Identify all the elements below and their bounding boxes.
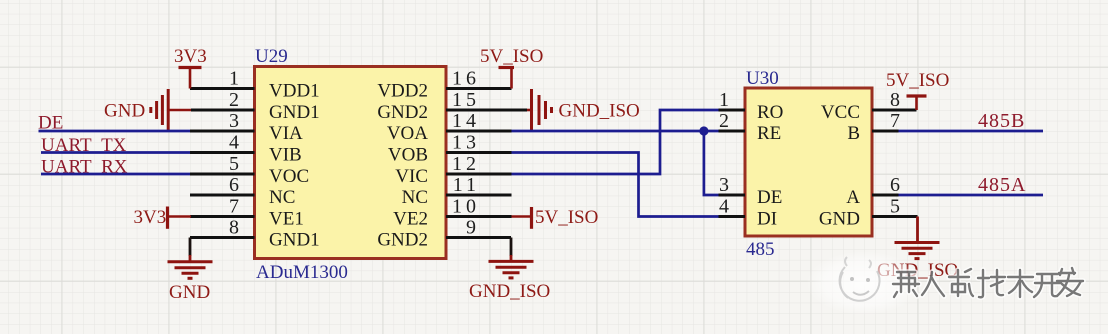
pin 5 (VOC) of U29 <box>190 153 309 187</box>
svg-text:11: 11 <box>453 174 480 196</box>
svg-text:GND_ISO: GND_ISO <box>469 281 550 302</box>
transistor U30 body (485 transceiver IC) <box>745 88 872 236</box>
svg-text:4: 4 <box>719 196 733 218</box>
svg-text:GND2: GND2 <box>377 230 428 251</box>
pin 10 (VE2) of U29 <box>393 196 511 230</box>
net label 485B <box>978 110 1025 132</box>
pin 1 (VDD1) of U29 <box>190 68 320 102</box>
svg-text:VIB: VIB <box>269 145 302 166</box>
svg-text:3: 3 <box>719 174 733 196</box>
svg-text:15: 15 <box>452 89 480 111</box>
power ground GND_ISO (bar style, at U29 pin 15) <box>527 89 640 131</box>
pin 4 (VIB) of U29 <box>190 132 302 166</box>
wire VIC (U29 pin12) to U30 pin1 RO <box>512 110 719 174</box>
power ground GND (bar style, at U29 pin 2) <box>104 89 191 131</box>
wire DE to U29 pin 3 <box>39 130 191 133</box>
pin 2 (GND1) of U29 <box>191 89 320 123</box>
pin 7 (VE1) of U29 <box>190 196 304 230</box>
watermark text 嵌入式技术开发 <box>893 268 1083 297</box>
svg-text:A: A <box>846 187 860 208</box>
svg-text:VDD1: VDD1 <box>269 81 320 102</box>
pin 7 (B) of U30 <box>847 110 904 144</box>
power port 5V_ISO (at U30 pin 8) <box>886 70 949 110</box>
pin 8 (VCC) of U30 <box>821 89 917 123</box>
svg-text:B: B <box>847 123 860 144</box>
svg-text:GND1: GND1 <box>269 102 320 123</box>
net label UART_TX <box>41 135 127 156</box>
pin 5 (GND) of U30 <box>819 196 918 230</box>
svg-text:GND_ISO: GND_ISO <box>559 101 640 122</box>
net label DE <box>38 113 63 134</box>
svg-text:VOA: VOA <box>387 123 428 144</box>
svg-text:7: 7 <box>229 196 243 218</box>
svg-text:3V3: 3V3 <box>134 207 167 228</box>
svg-text:1: 1 <box>229 68 243 90</box>
svg-text:RE: RE <box>757 123 781 144</box>
svg-text:9: 9 <box>466 217 480 239</box>
svg-text:16: 16 <box>452 68 480 90</box>
svg-text:DI: DI <box>757 209 777 230</box>
svg-text:DE: DE <box>757 187 782 208</box>
pin 11 (NC) of U29 <box>402 174 512 208</box>
svg-text:NC: NC <box>402 187 428 208</box>
svg-text:ADuM1300: ADuM1300 <box>256 262 348 283</box>
svg-text:7: 7 <box>890 110 904 132</box>
svg-text:NC: NC <box>269 187 295 208</box>
power ground GND_ISO (earth style, below U29 pin 9) <box>469 238 550 303</box>
pin 15 (GND2) of U29 <box>377 89 527 123</box>
svg-text:3V3: 3V3 <box>174 46 207 67</box>
watermark halo <box>806 251 922 315</box>
svg-text:1: 1 <box>719 89 733 111</box>
svg-text:485A: 485A <box>978 174 1026 196</box>
svg-text:6: 6 <box>229 174 243 196</box>
pin 8 (GND1) of U29 <box>190 217 320 251</box>
pin 1 (RO) of U30 <box>719 89 784 123</box>
svg-text:6: 6 <box>890 174 904 196</box>
svg-text:VE2: VE2 <box>393 209 428 230</box>
svg-text:4: 4 <box>229 132 243 154</box>
wire A (U30 pin6) to 485A <box>899 194 1044 197</box>
power ground GND_ISO (earth style, below U30 pin 5) <box>877 217 958 282</box>
svg-text:VIC: VIC <box>395 166 428 187</box>
svg-text:GND: GND <box>819 209 860 230</box>
svg-text:GND: GND <box>169 282 210 303</box>
net label UART_RX <box>41 157 128 178</box>
wire VOB (U29 pin13) to U30 pin4 DI <box>512 153 719 217</box>
svg-text:485B: 485B <box>978 110 1025 132</box>
pin 9 (GND2) of U29 <box>377 217 511 251</box>
pin 6 (NC) of U29 <box>190 174 295 208</box>
wire UART_RX to U29 pin 5 <box>41 173 190 176</box>
pin 2 (RE) of U30 <box>719 110 782 144</box>
value 485 <box>746 239 775 260</box>
wire VOA (U29 pin14) to U30 pin2 RE <box>512 130 719 133</box>
svg-text:10: 10 <box>452 196 480 218</box>
watermark logo <box>840 257 880 301</box>
svg-text:5: 5 <box>890 196 904 218</box>
svg-text:U29: U29 <box>255 46 288 67</box>
svg-text:VOC: VOC <box>269 166 309 187</box>
pin 13 (VOB) of U29 <box>388 132 512 166</box>
svg-text:3: 3 <box>229 110 243 132</box>
svg-text:VDD2: VDD2 <box>377 81 428 102</box>
svg-text:13: 13 <box>452 132 480 154</box>
wire B (U30 pin7) to 485B <box>899 130 1044 133</box>
svg-text:5V_ISO: 5V_ISO <box>480 46 543 67</box>
svg-text:12: 12 <box>452 153 480 175</box>
designator U29 <box>255 46 288 67</box>
svg-text:RO: RO <box>757 102 783 123</box>
power port 5V_ISO (top, to U29 pin 16) <box>480 46 543 89</box>
pin 6 (A) of U30 <box>846 174 904 208</box>
junction node on VOA/RE net <box>699 126 708 135</box>
pin 4 (DI) of U30 <box>719 196 778 230</box>
svg-text:5: 5 <box>229 153 243 175</box>
svg-text:5V_ISO: 5V_ISO <box>886 70 949 91</box>
svg-text:VE1: VE1 <box>269 209 304 230</box>
power port 3V3 (at U29 pin 7) <box>134 207 192 229</box>
svg-text:VOB: VOB <box>388 145 428 166</box>
svg-text:GND: GND <box>104 101 145 122</box>
svg-text:2: 2 <box>229 89 243 111</box>
svg-text:485: 485 <box>746 239 775 260</box>
pin 12 (VIC) of U29 <box>395 153 511 187</box>
pin 3 (DE) of U30 <box>719 174 783 208</box>
svg-text:2: 2 <box>719 110 733 132</box>
value ADuM1300 <box>256 262 348 283</box>
wire UART_TX to U29 pin 4 <box>41 151 190 154</box>
svg-text:8: 8 <box>229 217 243 239</box>
wire junction down to U30 pin3 DE <box>704 131 719 195</box>
pin 3 (VIA) of U29 <box>190 110 303 144</box>
op-amp U29 body (ADuM1300 isolator IC) <box>255 67 447 259</box>
pin 14 (VOA) of U29 <box>387 110 512 144</box>
power ground GND (earth style, below U29 pin 8) <box>168 238 213 304</box>
designator U30 <box>746 68 779 89</box>
svg-text:U30: U30 <box>746 68 779 89</box>
net label 485A <box>978 174 1026 196</box>
svg-text:GND1: GND1 <box>269 230 320 251</box>
pin 16 (VDD2) of U29 <box>377 68 511 102</box>
svg-text:VCC: VCC <box>821 102 860 123</box>
power port 5V_ISO (at U29 pin 10) <box>512 207 599 229</box>
svg-text:5V_ISO: 5V_ISO <box>535 207 598 228</box>
svg-text:VIA: VIA <box>269 123 303 144</box>
svg-text:GND2: GND2 <box>377 102 428 123</box>
power port 3V3 (top, to U29 pin 1) <box>174 46 207 89</box>
svg-text:8: 8 <box>890 89 904 111</box>
svg-text:14: 14 <box>452 110 480 132</box>
